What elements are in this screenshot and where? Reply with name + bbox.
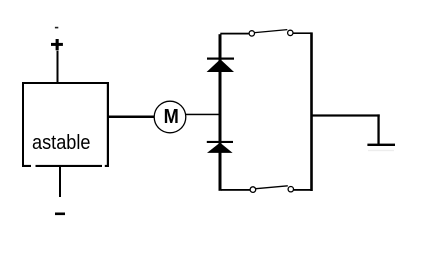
wire: left vertical diode bus (219, 34, 222, 191)
wire: left bus top to switch S1 (220, 33, 249, 35)
switch S1 (top, open) (249, 30, 293, 37)
label astable (32, 132, 91, 154)
wire: right vertical bus (310, 32, 313, 191)
svg-text:M: M (164, 106, 179, 128)
diode D1 (upper, cathode bar up) (207, 58, 234, 73)
wire: astable box to motor M1 (109, 116, 155, 119)
switch S2 (bottom, open) (250, 186, 293, 193)
svg-text:astable: astable (32, 132, 91, 154)
wire: left bus bottom to switch S2 (221, 189, 250, 191)
wire: astable box bottom to minus terminal (59, 167, 61, 197)
motor M1 (154, 101, 186, 133)
ground (367, 144, 395, 152)
wire: motor M1 to diode bus (186, 114, 219, 116)
wire: right bus to ground (311, 114, 380, 144)
label - (minus) (55, 213, 65, 216)
wire: switch S2 to right bus (294, 189, 311, 191)
diode D2 (lower, cathode bar up) (207, 141, 233, 153)
wire: switch S1 to right bus (293, 32, 311, 34)
label + (plus) (51, 39, 63, 50)
astable box U1 (22, 82, 109, 167)
wire: plus terminal to astable box top (57, 51, 59, 83)
node: + supply terminal tick (55, 27, 58, 29)
